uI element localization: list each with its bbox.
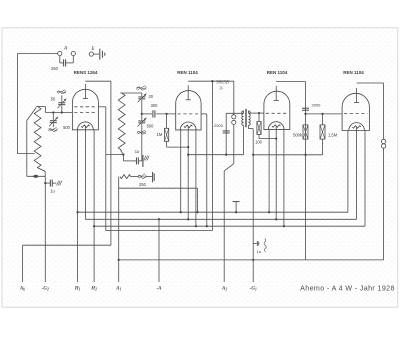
label RENS 1264 xyxy=(74,70,98,75)
wire V4 right leg xyxy=(364,131,366,227)
terminal label Ab xyxy=(19,286,25,291)
wire V1 right leg xyxy=(93,130,95,282)
svg-text:250: 250 xyxy=(139,182,147,187)
wire V2 anode drop xyxy=(211,81,213,230)
wire V4 center leg xyxy=(356,127,358,219)
capacitor 1u stage1 xyxy=(44,176,62,282)
capacitor 2000 jack xyxy=(214,111,243,155)
annotation 9803 B xyxy=(216,81,229,91)
svg-text:100: 100 xyxy=(255,140,263,145)
tube V2 REN 1104 xyxy=(176,85,201,130)
terminal label A1 xyxy=(115,286,121,291)
svg-text:1u: 1u xyxy=(135,149,140,154)
wire V3 right leg xyxy=(283,130,285,228)
svg-text:H1: H1 xyxy=(74,286,81,291)
earth terminal E xyxy=(89,46,99,56)
wire V1 top cap xyxy=(85,81,111,245)
coil L1 xyxy=(27,107,46,177)
svg-text:-G1: -G1 xyxy=(250,286,257,291)
caption xyxy=(300,284,395,292)
loudspeaker jack xyxy=(381,139,385,260)
terminal label A2 xyxy=(221,286,227,291)
wire cathode node stage2 xyxy=(188,154,243,156)
capacitor 1u stage2 xyxy=(123,149,149,167)
svg-text:REN 1104: REN 1104 xyxy=(177,70,198,75)
wire grid node stage 1 xyxy=(45,107,72,114)
wire T1 secondary bottom xyxy=(249,125,254,128)
terminal label -G1 xyxy=(250,286,257,291)
svg-text:1u: 1u xyxy=(257,249,261,254)
svg-text:50: 50 xyxy=(51,97,56,102)
wire V4 left leg xyxy=(347,131,349,213)
svg-text:RENS 1264: RENS 1264 xyxy=(74,70,98,75)
capacitor 300 xyxy=(141,103,176,117)
wire bottom bus xyxy=(118,259,384,261)
svg-text:D-: D- xyxy=(218,86,224,91)
svg-text:500k: 500k xyxy=(293,133,303,138)
wire V2 right leg xyxy=(195,130,197,227)
wire rheostat return xyxy=(119,188,198,212)
coil L2 xyxy=(118,93,142,155)
resistor 500k xyxy=(293,125,308,139)
svg-text:1M: 1M xyxy=(157,132,163,137)
svg-text:2000: 2000 xyxy=(312,102,322,107)
svg-text:1,5M: 1,5M xyxy=(328,133,338,138)
wire V2 grid exit xyxy=(201,114,208,227)
tube V4 REN 1104 xyxy=(342,88,369,131)
svg-text:20: 20 xyxy=(149,94,154,99)
svg-text:Ab: Ab xyxy=(19,286,25,291)
antenna terminal A xyxy=(58,46,76,56)
svg-text:-G2: -G2 xyxy=(42,286,49,291)
wire bus 4 xyxy=(106,230,213,232)
terminal label H1 xyxy=(74,286,81,291)
resistor 1.5M xyxy=(320,114,338,155)
tube V1 RENS 1264 xyxy=(72,84,98,130)
variable capacitor 500 stage2 xyxy=(137,114,154,161)
junction coil L1 bottom xyxy=(33,175,38,178)
svg-text:A2: A2 xyxy=(221,286,227,291)
wire V2 left leg xyxy=(180,130,182,213)
wire coil L1 left side xyxy=(27,121,46,177)
ground symbol xyxy=(100,49,105,60)
trimmer capacitor 50 xyxy=(51,90,67,113)
wire V2 center leg xyxy=(187,126,189,220)
wire V1 left leg xyxy=(76,130,78,282)
wire antenna lead-in xyxy=(18,54,58,154)
svg-text:500: 500 xyxy=(147,124,155,129)
wire bus 1 xyxy=(78,211,348,213)
label REN 1104 V2 xyxy=(177,70,198,75)
label REN 1104 V4 xyxy=(343,70,364,75)
capacitor 250 xyxy=(51,56,73,71)
wire V1 screen grid xyxy=(98,107,105,155)
svg-text:500: 500 xyxy=(63,125,71,130)
wire grid stage4 xyxy=(306,113,343,115)
terminal label -G2 xyxy=(42,286,49,291)
svg-text:REN 1104: REN 1104 xyxy=(267,70,288,75)
svg-text:H2: H2 xyxy=(90,286,97,291)
wire bus 2 xyxy=(85,218,356,220)
wire V4 top cap xyxy=(357,83,384,139)
svg-text:-A: -A xyxy=(157,286,163,291)
resistor 250 xyxy=(119,172,155,282)
resistor 100 xyxy=(255,113,277,144)
wire T1 primary bottom xyxy=(243,125,245,154)
wire V3 center leg xyxy=(275,126,277,220)
svg-text:A1: A1 xyxy=(115,286,121,291)
wire anode battery bus xyxy=(23,245,111,282)
label REN 1104 V3 xyxy=(267,70,288,75)
transformer T1 xyxy=(242,109,250,127)
svg-text:1u: 1u xyxy=(50,189,55,194)
grid bias cell xyxy=(252,129,266,282)
resistor 1M grid leak xyxy=(157,114,189,147)
svg-text:Ahemo - A 4 W - Jahr 1928: Ahemo - A 4 W - Jahr 1928 xyxy=(300,284,395,292)
wire V3 left leg xyxy=(268,130,270,214)
wire V1 center leg xyxy=(84,126,86,219)
capacitor 2000 coupling xyxy=(302,102,321,115)
wire bus 3 xyxy=(94,225,365,227)
trimmer capacitor 20 xyxy=(137,86,154,114)
wire L2 bottom node xyxy=(106,153,125,230)
svg-text:300: 300 xyxy=(151,103,159,108)
svg-text:A: A xyxy=(63,46,68,52)
tube V3 REN 1104 xyxy=(264,86,290,130)
chassis tap symbol xyxy=(233,202,240,213)
wire T1 secondary top xyxy=(249,111,264,114)
variable capacitor 500 stage1 xyxy=(49,113,71,132)
svg-text:2000: 2000 xyxy=(214,123,224,128)
headphone jack xyxy=(224,115,236,282)
terminal label H2 xyxy=(90,286,97,291)
wire V3 top cap xyxy=(276,82,305,260)
terminal label -A xyxy=(157,286,163,291)
terminal -A xyxy=(158,218,160,282)
wire V2 top cap xyxy=(188,80,234,114)
svg-text:250: 250 xyxy=(51,66,59,71)
wire cathode node stage3 xyxy=(253,154,322,156)
svg-text:REN 1104: REN 1104 xyxy=(343,70,364,75)
